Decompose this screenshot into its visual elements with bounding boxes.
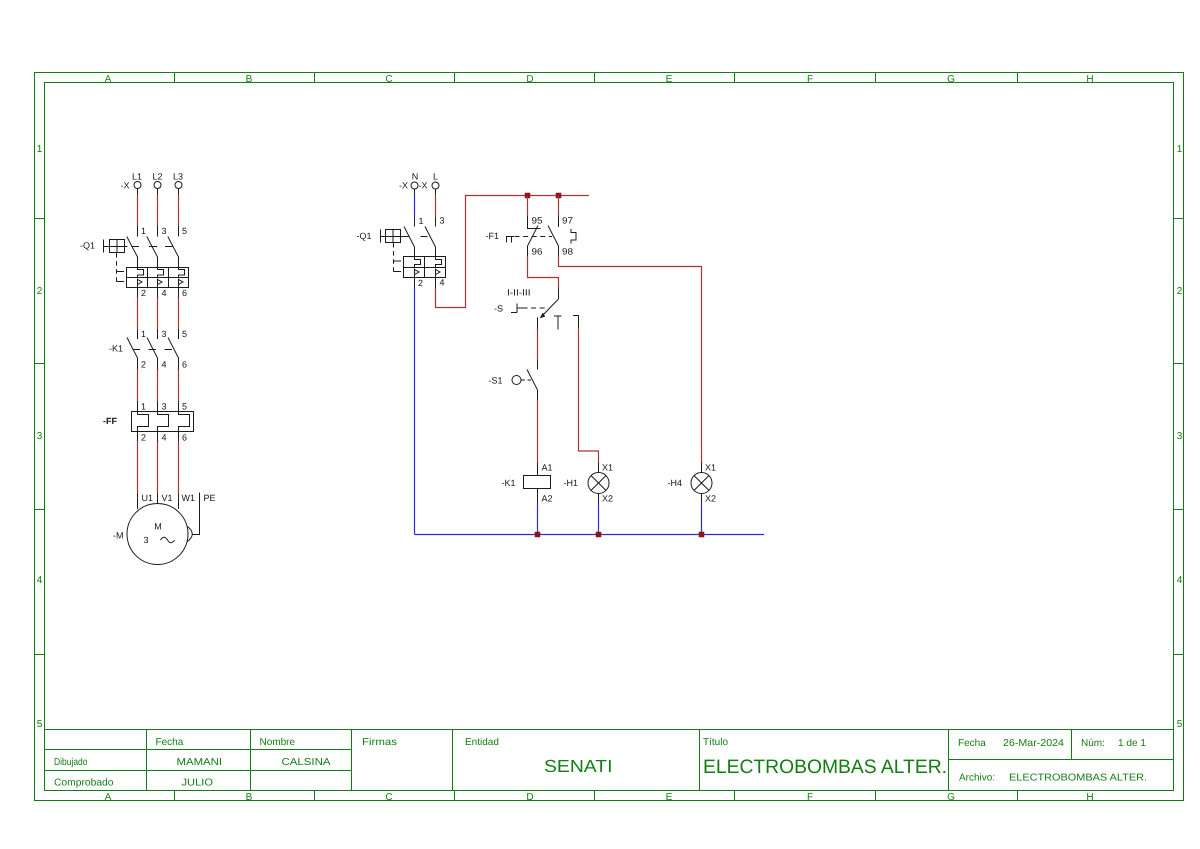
breaker Q1 control trip linkage <box>393 243 395 272</box>
svg-text:6: 6 <box>182 433 187 443</box>
breaker Q1 thermal elements <box>138 268 185 278</box>
wire N to Q1 <box>414 189 416 195</box>
svg-text:2: 2 <box>37 286 43 297</box>
svg-text:4: 4 <box>440 278 445 288</box>
svg-text:W1: W1 <box>182 493 196 503</box>
svg-text:3: 3 <box>143 535 148 545</box>
contactor K1 pole 1 <box>127 338 138 370</box>
junction node bus at K1 <box>535 532 541 538</box>
svg-text:4: 4 <box>162 288 167 298</box>
breaker Q1 control box <box>404 257 446 278</box>
svg-text:-Q1: -Q1 <box>80 241 95 251</box>
wire Q1 to K1 pole3 <box>178 288 180 298</box>
svg-text:I-II-III: I-II-III <box>507 288 531 298</box>
wire Q1 to K1 pole1 <box>137 288 139 298</box>
wire K1 to FF pole1 <box>137 370 139 402</box>
svg-text:MAMANI: MAMANI <box>177 757 223 768</box>
svg-text:1 de 1: 1 de 1 <box>1118 738 1146 749</box>
breaker Q1 pole 1 contact <box>127 237 138 268</box>
F1 NC contact 95-96 <box>528 226 541 247</box>
svg-text:3: 3 <box>162 226 167 236</box>
svg-text:X2: X2 <box>602 494 613 504</box>
F1 latch symbol <box>571 229 576 244</box>
svg-text:1: 1 <box>37 144 43 155</box>
contactor K1 pole 2 <box>147 338 158 370</box>
wire S throw III to lamp H1 <box>579 328 599 463</box>
svg-text:-M: -M <box>113 531 124 541</box>
svg-text:Nombre: Nombre <box>260 737 296 748</box>
wire coil K1 to bus <box>537 489 539 504</box>
breaker Q1 control pole 1 <box>404 227 415 257</box>
breaker Q1 control handle <box>381 230 401 243</box>
title block grid <box>45 730 1174 791</box>
svg-text:5: 5 <box>182 329 187 339</box>
svg-text:E: E <box>666 74 673 85</box>
svg-text:3: 3 <box>440 216 445 226</box>
svg-text:CALSINA: CALSINA <box>282 757 331 768</box>
frame row numbers left <box>37 144 43 730</box>
svg-text:6: 6 <box>182 360 187 370</box>
contactor K1 pole 3 <box>168 338 179 370</box>
svg-text:4: 4 <box>162 433 167 443</box>
selector S operator dashes <box>523 307 547 309</box>
svg-text:97: 97 <box>562 216 573 226</box>
svg-text:ELECTROBOMBAS ALTER.: ELECTROBOMBAS ALTER. <box>703 756 947 778</box>
frame row ticks left <box>35 219 45 655</box>
drawing frame inner border <box>45 83 1174 791</box>
svg-text:1: 1 <box>419 216 424 226</box>
svg-text:JULIO: JULIO <box>182 778 214 789</box>
svg-text:-S: -S <box>494 304 503 314</box>
breaker Q1 overload box <box>127 268 189 288</box>
selector S blade <box>541 299 559 318</box>
svg-text:X1: X1 <box>602 463 613 473</box>
wire L1 to Q1 <box>137 189 139 195</box>
lamp H1 <box>588 473 609 494</box>
svg-text:-S1: -S1 <box>488 376 502 386</box>
F1 NO contact 97-98 <box>548 226 559 247</box>
svg-text:Dibujado: Dibujado <box>54 757 88 768</box>
svg-text:5: 5 <box>1177 719 1183 730</box>
wire rail to F1 95 <box>527 196 529 217</box>
wire FF to motor W1 <box>178 432 180 442</box>
svg-text:-K1: -K1 <box>501 478 515 488</box>
svg-text:X1: X1 <box>705 463 716 473</box>
breaker Q1 magnetic elements <box>138 279 179 288</box>
svg-text:Fecha: Fecha <box>958 738 986 749</box>
wire K1 to FF pole2 <box>157 370 159 402</box>
motor M circle <box>127 504 188 565</box>
wire F1 98 to lamp H4 <box>558 246 560 256</box>
svg-text:1: 1 <box>141 226 146 236</box>
svg-text:3: 3 <box>162 329 167 339</box>
svg-text:2: 2 <box>141 433 146 443</box>
wire L3 to Q1 <box>178 189 180 195</box>
svg-text:A1: A1 <box>542 463 553 473</box>
terminal L3 <box>175 182 182 189</box>
svg-text:-K1: -K1 <box>109 344 123 354</box>
frame column ticks bottom <box>175 791 1018 801</box>
PE conductor <box>193 493 200 535</box>
wire S1 to coil K1 <box>537 390 539 400</box>
svg-text:E: E <box>666 792 673 803</box>
selector S blade arrowhead <box>540 313 546 319</box>
svg-text:26-Mar-2024: 26-Mar-2024 <box>1003 738 1064 749</box>
motor sine symbol <box>161 537 175 543</box>
frame column ticks top <box>175 73 1018 83</box>
svg-text:2: 2 <box>418 278 423 288</box>
wire lamp H4 to bus <box>701 494 703 503</box>
wire rail to F1 97 <box>558 196 560 216</box>
svg-text:C: C <box>385 74 392 85</box>
selector S throw II <box>554 316 562 330</box>
svg-text:A2: A2 <box>542 494 553 504</box>
breaker Q1 handle <box>104 240 125 253</box>
svg-text:Núm:: Núm: <box>1081 738 1105 749</box>
svg-text:ELECTROBOMBAS ALTER.: ELECTROBOMBAS ALTER. <box>1009 773 1147 784</box>
svg-text:Firmas: Firmas <box>362 737 397 748</box>
svg-text:3: 3 <box>162 402 167 412</box>
svg-text:-FF: -FF <box>103 416 117 426</box>
breaker Q1 control pole 2 <box>425 227 436 257</box>
svg-text:A: A <box>105 792 112 803</box>
svg-text:V1: V1 <box>162 493 173 503</box>
wire FF to motor V1 <box>157 432 159 442</box>
lamp H4 <box>691 473 712 494</box>
svg-text:95: 95 <box>532 216 543 226</box>
svg-text:L: L <box>433 172 438 182</box>
svg-text:4: 4 <box>37 575 43 586</box>
terminal L2 <box>154 182 161 189</box>
junction node above F1 97 <box>556 193 562 199</box>
terminal L1 <box>134 182 141 189</box>
svg-text:D: D <box>526 74 533 85</box>
coil K1 rectangle <box>524 476 551 489</box>
svg-text:L3: L3 <box>173 172 183 182</box>
svg-text:PE: PE <box>204 493 216 503</box>
svg-text:-X: -X <box>121 181 130 191</box>
svg-text:4: 4 <box>162 360 167 370</box>
svg-text:Fecha: Fecha <box>156 737 184 748</box>
svg-text:5: 5 <box>182 402 187 412</box>
svg-text:3: 3 <box>1177 431 1183 442</box>
svg-text:G: G <box>947 74 955 85</box>
svg-text:H: H <box>1086 74 1093 85</box>
svg-text:2: 2 <box>141 288 146 298</box>
svg-text:1: 1 <box>141 402 146 412</box>
svg-text:G: G <box>947 792 955 803</box>
svg-text:-F1: -F1 <box>486 231 500 241</box>
svg-text:-Q1: -Q1 <box>356 231 371 241</box>
pushbutton S1 actuator dashes <box>521 379 531 381</box>
svg-text:3: 3 <box>37 431 43 442</box>
svg-text:-X: -X <box>399 181 408 191</box>
svg-text:F: F <box>807 74 813 85</box>
frame column letters top <box>105 74 1094 85</box>
junction node bus at H4 <box>699 532 705 538</box>
svg-text:F: F <box>807 792 813 803</box>
terminal L <box>432 182 439 189</box>
svg-text:-H4: -H4 <box>667 478 682 488</box>
svg-text:N: N <box>412 172 419 182</box>
svg-text:Entidad: Entidad <box>465 737 499 748</box>
frame row ticks right <box>1174 219 1184 655</box>
selector S throw I <box>537 318 539 330</box>
svg-text:X2: X2 <box>705 494 716 504</box>
breaker Q1 control thermal elements <box>415 257 442 268</box>
svg-text:Archivo:: Archivo: <box>959 773 995 784</box>
svg-text:A: A <box>105 74 112 85</box>
svg-text:Comprobado: Comprobado <box>54 778 114 789</box>
wire Q1 control pin2 to bus (blue) <box>414 278 416 289</box>
junction node bus at H1 <box>596 532 602 538</box>
svg-text:2: 2 <box>1177 286 1183 297</box>
PE connection arc <box>188 527 193 542</box>
wire lamp H1 to bus <box>598 494 600 503</box>
breaker Q1 pole 2 contact <box>147 237 158 268</box>
svg-text:U1: U1 <box>142 493 154 503</box>
junction node above F1 95 <box>525 193 531 199</box>
svg-text:B: B <box>246 792 253 803</box>
wire K1 to FF pole3 <box>178 370 180 402</box>
terminal N <box>411 182 418 189</box>
svg-text:5: 5 <box>37 719 43 730</box>
wire F1 96 to selector S <box>527 246 529 256</box>
svg-text:B: B <box>246 74 253 85</box>
wire Q1 to K1 pole2 <box>157 288 159 298</box>
overload relay FF box <box>132 412 194 432</box>
svg-text:C: C <box>385 792 392 803</box>
breaker Q1 trip linkage dashed <box>116 253 118 282</box>
svg-text:6: 6 <box>182 288 187 298</box>
svg-text:96: 96 <box>532 247 543 257</box>
svg-text:-X: -X <box>419 181 428 191</box>
svg-text:SENATI: SENATI <box>544 756 613 776</box>
F1 linkage dashes <box>515 236 553 238</box>
frame column letters bottom <box>105 792 1094 803</box>
wire L to Q1 <box>435 189 437 195</box>
selector S operator symbol <box>511 304 523 313</box>
breaker Q1 pole 3 contact <box>168 237 179 268</box>
breaker Q1 control magnetic elements <box>415 269 436 278</box>
svg-text:1: 1 <box>1177 144 1183 155</box>
selector S throw III <box>573 316 579 329</box>
contactor K1 linkage dashes <box>133 349 175 351</box>
F1 trip symbol <box>507 237 515 243</box>
svg-text:M: M <box>154 522 162 532</box>
svg-text:1: 1 <box>141 329 146 339</box>
wire L2 to Q1 <box>157 189 159 195</box>
wire FF to motor U1 <box>137 432 139 442</box>
svg-text:L1: L1 <box>132 172 142 182</box>
neutral bus wire <box>415 534 765 536</box>
frame row numbers right <box>1177 144 1183 730</box>
pushbutton S1 actuator circle <box>512 376 521 385</box>
svg-text:Título: Título <box>703 737 728 748</box>
wire Q1 control pin4 to top rail (red) <box>435 278 437 289</box>
svg-text:5: 5 <box>182 226 187 236</box>
svg-text:L2: L2 <box>153 172 163 182</box>
svg-text:2: 2 <box>141 360 146 370</box>
svg-text:98: 98 <box>562 247 573 257</box>
pushbutton S1 contact blade <box>527 370 538 391</box>
svg-text:4: 4 <box>1177 575 1183 586</box>
wire S throw I to S1 <box>537 329 539 361</box>
breaker Q1 linkage dashes <box>124 246 173 248</box>
overload FF heater elements <box>138 412 190 432</box>
svg-text:-H1: -H1 <box>563 478 578 488</box>
breaker Q1 control linkage dashes <box>401 236 428 238</box>
svg-text:H: H <box>1086 792 1093 803</box>
svg-text:D: D <box>526 792 533 803</box>
